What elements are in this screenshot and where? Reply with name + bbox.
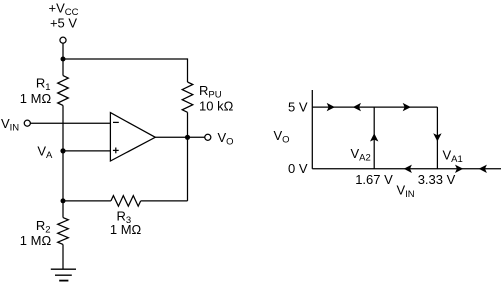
wire VCC rail horizontal bbox=[63, 58, 188, 60]
wire feedback to R3 right lead bbox=[141, 200, 188, 202]
wire R2 top lead bbox=[62, 201, 64, 218]
graph falling edge at VA1 bbox=[436, 107, 438, 169]
wire node A to non-inverting input bbox=[63, 150, 110, 152]
graph rising edge at VA2 bbox=[373, 107, 375, 169]
resistor R3 bbox=[111, 196, 141, 207]
svg-text:VA: VA bbox=[37, 143, 53, 161]
svg-text:1 MΩ: 1 MΩ bbox=[20, 91, 52, 106]
svg-text:VA2: VA2 bbox=[351, 146, 371, 164]
wire RPU bottom to output node bbox=[187, 112, 189, 137]
svg-text:1 MΩ: 1 MΩ bbox=[20, 233, 52, 248]
junction node A / R3 bbox=[61, 198, 66, 203]
junction output node bbox=[185, 135, 190, 140]
pin minus inverting input symbol bbox=[113, 121, 119, 123]
wire R1 bottom to node A bbox=[62, 105, 64, 150]
arrow left on 5V segment bbox=[353, 103, 361, 111]
wire VCC terminal to rail bbox=[62, 43, 64, 59]
junction VCC rail bbox=[61, 57, 66, 62]
junction node A bbox=[60, 148, 65, 153]
svg-text:VO: VO bbox=[274, 128, 290, 146]
terminal VO open circle bbox=[205, 134, 211, 140]
svg-text:VIN: VIN bbox=[397, 182, 415, 200]
terminal +VCC open circle bbox=[60, 37, 66, 43]
wire R3 left lead to node A bbox=[63, 200, 111, 202]
wire feedback vertical bbox=[187, 137, 189, 201]
graph 5V output high segment bbox=[312, 106, 437, 108]
svg-text:1.67 V: 1.67 V bbox=[355, 172, 393, 187]
arrow left on x-axis bbox=[404, 165, 412, 173]
svg-text:3.33 V: 3.33 V bbox=[418, 172, 456, 187]
arrow right on 5V segment bbox=[327, 103, 335, 111]
resistor RPU bbox=[182, 82, 193, 112]
pin plus non-inverting input symbol bbox=[113, 148, 119, 154]
svg-text:VO: VO bbox=[218, 130, 234, 148]
resistor R2 bbox=[58, 218, 69, 245]
graph x-axis VIN bbox=[312, 168, 501, 170]
wire R2 bottom to ground bbox=[62, 244, 64, 269]
svg-text:VA1: VA1 bbox=[443, 148, 463, 166]
ground bbox=[51, 269, 76, 280]
svg-text:+5 V: +5 V bbox=[50, 16, 77, 31]
svg-text:5 V: 5 V bbox=[288, 100, 308, 115]
arrow right on 5V segment near VA1 bbox=[403, 103, 411, 111]
svg-text:VIN: VIN bbox=[1, 116, 19, 134]
wire comparator output bbox=[155, 136, 204, 138]
wire VIN to inverting input bbox=[30, 122, 110, 124]
arrow left on x-axis far right bbox=[479, 165, 487, 173]
op-amp U1 comparator triangle bbox=[110, 113, 155, 161]
resistor R1 bbox=[58, 76, 69, 106]
arrow down on falling edge bbox=[433, 133, 441, 141]
svg-text:1 MΩ: 1 MΩ bbox=[110, 222, 142, 237]
wire node A down to R3 junction bbox=[62, 151, 64, 201]
wire RPU top lead bbox=[187, 58, 189, 82]
wire R1 top lead bbox=[62, 59, 64, 76]
graph y-axis bbox=[311, 90, 313, 169]
svg-text:10 kΩ: 10 kΩ bbox=[199, 98, 234, 113]
terminal VIN open circle bbox=[24, 120, 30, 126]
arrow right on x-axis bbox=[455, 165, 463, 173]
svg-text:0 V: 0 V bbox=[288, 161, 308, 176]
arrow up on rising edge bbox=[370, 133, 378, 141]
